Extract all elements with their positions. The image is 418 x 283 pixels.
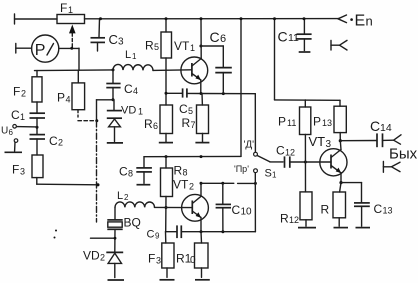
svg-text:6: 6 [9,128,14,137]
svg-text:1: 1 [272,171,277,180]
svg-text:R: R [144,117,153,131]
svg-text:0: 0 [190,255,196,266]
svg-text:R: R [321,203,330,217]
svg-text:12: 12 [285,148,295,158]
svg-text:14: 14 [380,122,392,134]
svg-text:5: 5 [154,42,159,52]
svg-text:9: 9 [155,232,160,241]
svg-text:VT: VT [173,178,189,192]
svg-text:12: 12 [289,215,299,225]
svg-text:1: 1 [138,107,143,117]
svg-text:1: 1 [20,112,25,122]
svg-text:8: 8 [183,168,188,178]
svg-text:P: P [313,115,321,129]
svg-text:3: 3 [156,256,161,266]
svg-text:2: 2 [100,253,105,263]
svg-text:1: 1 [190,43,195,53]
svg-text:'Д': 'Д' [244,140,255,151]
svg-text:4: 4 [133,86,138,96]
svg-text:11: 11 [288,32,299,44]
svg-text:6: 6 [220,33,226,45]
svg-text:F: F [12,163,19,177]
svg-text:C: C [109,32,118,47]
svg-text:L: L [125,49,131,61]
svg-text:2: 2 [124,193,129,202]
svg-text:C: C [147,229,155,241]
svg-text:2: 2 [58,138,63,148]
svg-text:C: C [278,28,288,44]
svg-text:F: F [13,85,20,99]
svg-text:VT: VT [309,134,326,149]
svg-text:13: 13 [322,118,332,128]
svg-text:13: 13 [383,206,393,216]
svg-text:BQ: BQ [124,216,141,230]
svg-text:C: C [11,108,20,122]
svg-text:C: C [374,202,383,216]
svg-text:C: C [232,203,241,217]
svg-text:R: R [182,116,191,130]
svg-text:C: C [276,144,285,158]
svg-text:C: C [124,82,133,96]
svg-text:4: 4 [66,95,71,105]
svg-text:11: 11 [287,118,296,128]
svg-text:10: 10 [241,207,253,218]
svg-text:VD: VD [121,105,136,117]
svg-text:F: F [60,1,67,15]
svg-text:U: U [1,126,8,137]
svg-text:VT: VT [174,39,190,53]
svg-text:'Пр': 'Пр' [234,164,249,174]
svg-text:C: C [179,102,188,116]
svg-text:E: E [355,13,366,30]
svg-text:R: R [280,212,289,226]
svg-text:F: F [148,252,155,266]
svg-text:2: 2 [21,89,26,99]
svg-text:S: S [265,168,272,180]
svg-text:3: 3 [118,37,124,48]
svg-text:Бых: Бых [389,146,418,163]
svg-text:8: 8 [128,169,133,179]
svg-text:3: 3 [326,139,332,150]
svg-text:C: C [370,118,380,134]
svg-text:VD: VD [83,249,100,263]
svg-text:P: P [57,91,65,105]
svg-text:1: 1 [132,52,137,61]
svg-text:P: P [278,115,286,129]
svg-text:C: C [210,29,220,45]
svg-text:6: 6 [153,121,158,131]
svg-text:C: C [119,165,128,179]
svg-text:n: n [366,14,373,29]
svg-text:R: R [145,39,154,53]
svg-text:L: L [117,190,123,202]
svg-text:5: 5 [188,106,193,116]
svg-text:C: C [49,134,58,148]
svg-text:3: 3 [20,167,25,177]
svg-text:2: 2 [189,182,194,192]
svg-text:7: 7 [191,120,196,130]
svg-text:1: 1 [68,5,73,15]
svg-text:P: P [35,42,46,59]
svg-text:R: R [174,164,183,178]
